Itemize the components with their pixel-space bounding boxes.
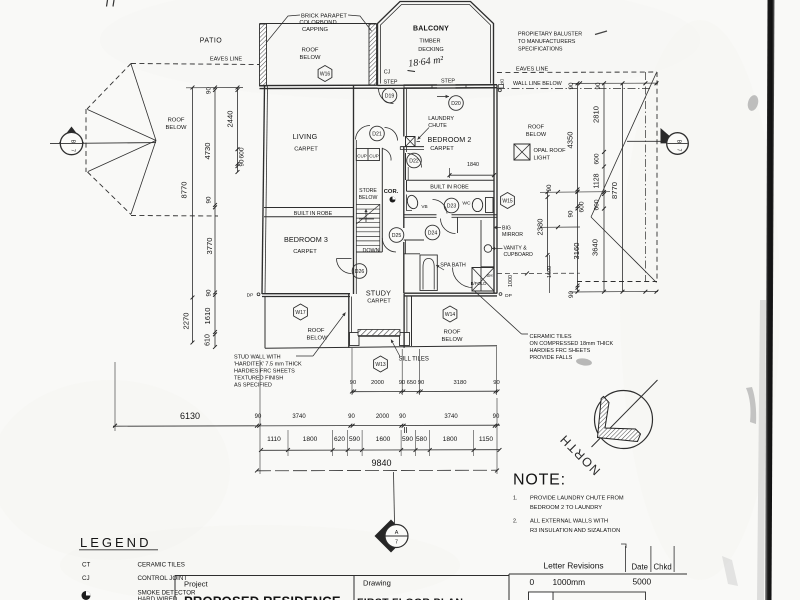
right dim chain R3 8770 — [622, 83, 624, 291]
bath dividing wall horizontal — [404, 214, 437, 216]
svg-text:9840: 9840 — [371, 458, 391, 468]
svg-text:90: 90 — [568, 82, 575, 89]
svg-text:D20: D20 — [451, 101, 461, 107]
parapet wall hatched column right — [369, 24, 377, 85]
svg-text:7: 7 — [676, 149, 682, 152]
svg-text:EAVES LINE: EAVES LINE — [516, 66, 548, 72]
svg-text:FIRST FLOOR PLAN: FIRST FLOOR PLAN — [357, 597, 463, 600]
row B left extension vertical — [114, 362, 116, 431]
svg-text:CARPET: CARPET — [294, 147, 318, 153]
svg-text:3740: 3740 — [444, 414, 458, 420]
svg-text:ROOF: ROOF — [444, 329, 461, 335]
svg-text:ROOF: ROOF — [302, 48, 319, 54]
scale bar — [529, 592, 646, 600]
svg-text:1610: 1610 — [203, 308, 212, 325]
svg-text:ALL EXTERNAL WALLS WITH: ALL EXTERNAL WALLS WITH — [530, 519, 608, 525]
svg-text:590: 590 — [349, 436, 360, 443]
svg-text:STUD WALL WITH: STUD WALL WITH — [234, 355, 281, 361]
bottom wall bedroom3 — [262, 293, 350, 295]
svg-text:ROOF: ROOF — [528, 124, 545, 130]
vanity basin VB — [406, 194, 420, 210]
svg-text:WC: WC — [462, 201, 471, 207]
section line B left — [50, 143, 156, 144]
door D20 circle — [449, 96, 464, 111]
window marker W17 — [294, 304, 308, 320]
svg-text:5000: 5000 — [633, 577, 652, 587]
door D25 arc — [382, 238, 396, 252]
svg-text:6130: 6130 — [180, 411, 200, 421]
svg-text:PROPOSED RESIDENCE: PROPOSED RESIDENCE — [184, 594, 341, 600]
svg-text:HARD WIRED: HARD WIRED — [138, 596, 178, 600]
eaves dashed line right — [497, 71, 657, 74]
svg-text:90: 90 — [568, 291, 575, 298]
stair diagonal — [356, 205, 380, 225]
svg-text:DP: DP — [505, 293, 512, 299]
svg-text:LIVING: LIVING — [293, 132, 318, 141]
right roof dashed outline — [656, 72, 658, 282]
shower bifold arc — [453, 268, 473, 288]
svg-text:1000: 1000 — [508, 275, 514, 287]
svg-text:CONTROL JOINT: CONTROL JOINT — [138, 575, 188, 582]
shower cubicle — [472, 268, 494, 292]
svg-text:W13: W13 — [375, 362, 386, 368]
bottom wall bathroom — [404, 292, 497, 294]
door D20 arrow — [437, 96, 449, 98]
svg-text:90: 90 — [350, 380, 356, 386]
bottom dim row D 9840 — [257, 469, 497, 472]
svg-text:1128: 1128 — [594, 173, 601, 188]
svg-text:90: 90 — [546, 184, 553, 191]
svg-text:7: 7 — [70, 149, 76, 152]
svg-text:BRICK PARAPET: BRICK PARAPET — [301, 14, 347, 20]
svg-text:CT: CT — [82, 562, 90, 569]
svg-text:TO MANUFACTURERS: TO MANUFACTURERS — [518, 39, 576, 45]
spa bath fixture — [420, 255, 437, 291]
svg-text:600: 600 — [579, 201, 586, 212]
right mid tick row — [540, 191, 610, 194]
svg-text:PATIO: PATIO — [200, 38, 223, 45]
scan page edge dark band right — [765, 0, 775, 600]
svg-text:3180: 3180 — [454, 380, 467, 386]
svg-text:90: 90 — [239, 159, 246, 166]
door D22 circle — [407, 153, 422, 168]
eaves line dashed top-left — [131, 64, 259, 65]
door D19 arc — [379, 89, 394, 104]
opal roof light symbol — [514, 144, 530, 160]
svg-text:CAPPING: CAPPING — [302, 27, 329, 33]
svg-text:1600: 1600 — [376, 436, 391, 443]
svg-text:Drawing: Drawing — [363, 579, 391, 588]
svg-text:1110: 1110 — [267, 436, 281, 443]
spa callout arrow — [436, 265, 444, 270]
laundry chute box — [406, 137, 416, 147]
svg-text:3770: 3770 — [205, 238, 214, 255]
svg-text:HARDIES FRC SHEETS: HARDIES FRC SHEETS — [530, 348, 591, 354]
svg-text:MIRROR: MIRROR — [502, 232, 523, 238]
svg-text:SILL TILES: SILL TILES — [399, 356, 429, 362]
svg-text:BELOW: BELOW — [359, 195, 378, 201]
svg-text:CHUTE: CHUTE — [428, 123, 447, 129]
right roof dash-dot inner vertical — [644, 72, 646, 282]
svg-text:BEDROOM 3: BEDROOM 3 — [284, 235, 328, 244]
door D26 circle — [352, 264, 367, 279]
svg-text:600: 600 — [239, 147, 246, 158]
svg-text:CUP: CUP — [369, 153, 379, 158]
svg-text:CJ: CJ — [384, 70, 391, 76]
svg-text:PROPIETARY BALUSTER: PROPIETARY BALUSTER — [518, 32, 582, 38]
svg-text:LEGEND: LEGEND — [80, 535, 151, 550]
svg-text:VANITY &: VANITY & — [504, 246, 528, 252]
right dim chain R2 2810-600-1128-600-3640 — [603, 83, 605, 291]
svg-text:1150: 1150 — [479, 436, 494, 443]
ceramic tiles callout — [474, 291, 522, 335]
svg-text:2000: 2000 — [371, 380, 384, 386]
dashed line 1000 right — [497, 272, 580, 274]
door D24 circle — [425, 225, 440, 240]
cupboards CUP CUP — [356, 149, 379, 161]
svg-text:2.: 2. — [513, 519, 518, 525]
title block drawing box — [354, 575, 509, 577]
svg-text:90: 90 — [568, 210, 575, 217]
left dims top connector — [186, 87, 243, 89]
svg-text:3740: 3740 — [292, 414, 306, 420]
svg-text:90: 90 — [255, 414, 262, 420]
row D extension verticals — [259, 360, 261, 474]
svg-text:BELOW: BELOW — [166, 125, 187, 131]
section marker B right — [661, 128, 679, 143]
left dim chain line L3 2440-600 — [237, 88, 239, 173]
handwritten area 18.6 m2 — [408, 54, 445, 69]
svg-text:TIMBER: TIMBER — [419, 39, 440, 45]
built-in robe bed2 box — [407, 179, 495, 181]
study bay walls — [348, 294, 350, 348]
svg-text:D21: D21 — [372, 131, 382, 137]
smoke detector symbol corridor — [390, 197, 396, 203]
svg-text:7: 7 — [395, 540, 398, 546]
window marker W13 — [374, 356, 388, 372]
svg-text:8770: 8770 — [610, 182, 619, 199]
svg-text:'HARDITEX' 7.5 mm THICK: 'HARDITEX' 7.5 mm THICK — [234, 362, 302, 368]
built-in robe bedroom3 — [264, 207, 354, 209]
svg-text:620: 620 — [334, 436, 345, 443]
svg-text:CARPET: CARPET — [430, 146, 454, 152]
window marker W15 — [501, 193, 515, 209]
svg-text:600: 600 — [594, 199, 601, 210]
svg-text:BUILT IN ROBE: BUILT IN ROBE — [430, 184, 469, 190]
svg-text:580: 580 — [416, 436, 427, 443]
svg-text:2440: 2440 — [226, 111, 235, 128]
main top wall living — [260, 84, 378, 86]
svg-text:PROVIDE FALLS: PROVIDE FALLS — [530, 355, 573, 361]
svg-text:BIG: BIG — [502, 226, 511, 232]
svg-text:WALL LINE BELOW: WALL LINE BELOW — [513, 81, 563, 87]
svg-text:EAVES LINE: EAVES LINE — [210, 57, 242, 63]
svg-text:90: 90 — [595, 82, 602, 89]
bed2 step wall below chute — [400, 146, 424, 148]
svg-text:W14: W14 — [445, 312, 456, 318]
svg-text:SPA BATH: SPA BATH — [440, 262, 466, 268]
stair shaft wall right — [381, 148, 383, 252]
svg-text:STEP: STEP — [441, 79, 455, 85]
svg-text:90: 90 — [206, 196, 213, 203]
svg-text:ON COMPRESSED 18mm THICK: ON COMPRESSED 18mm THICK — [530, 341, 614, 347]
stray pen mark — [595, 31, 607, 35]
svg-text:1800: 1800 — [443, 436, 458, 443]
svg-text:90: 90 — [493, 414, 500, 420]
smudge right upper — [746, 94, 760, 112]
svg-text:D25: D25 — [392, 233, 402, 239]
svg-text:1840: 1840 — [467, 162, 479, 168]
section marker A symbol — [375, 520, 408, 553]
svg-text:BELOW: BELOW — [442, 337, 463, 343]
svg-text:BEDROOM 2 TO LAUNDRY: BEDROOM 2 TO LAUNDRY — [530, 505, 602, 511]
door D23 circle — [444, 198, 459, 213]
bottom dim row A 90-2000-90-650-90-3180-90 — [352, 390, 498, 393]
wall line below dash-dot — [497, 88, 650, 90]
svg-text:CJ: CJ — [82, 575, 90, 582]
hip roof dashed outline left — [87, 64, 131, 110]
balcony inner wall line — [381, 5, 491, 84]
svg-text:4350: 4350 — [566, 132, 575, 149]
lower band bottom edge line — [265, 346, 497, 349]
hip ridge lines left roof — [131, 64, 156, 141]
right roof hip diagonals — [591, 73, 657, 218]
door D22 arc — [408, 154, 422, 168]
north arrow diagonal — [592, 380, 658, 447]
svg-text:D26: D26 — [355, 269, 365, 275]
svg-text:A: A — [395, 530, 399, 536]
exterior wall right bed2-bath — [493, 85, 495, 294]
window marker W16 — [318, 66, 332, 82]
right mid tick row 2 — [540, 226, 580, 228]
svg-text:D24: D24 — [428, 230, 438, 236]
window marker W14 — [443, 306, 457, 322]
svg-text:Chkd: Chkd — [654, 563, 672, 572]
stair treads — [356, 204, 380, 206]
title block project box — [175, 575, 354, 577]
left lower roof-below outline — [264, 297, 266, 349]
bath jog walls — [404, 239, 424, 241]
bottom dim row B 6130 + 90-3740-90-2000-90-3740-90 — [113, 425, 500, 426]
exterior wall left — [262, 86, 265, 294]
study window sill tiles — [350, 333, 360, 346]
smudge near provide falls — [576, 357, 593, 366]
svg-text:R3 INSULATION AND SIZALATION: R3 INSULATION AND SIZALATION — [530, 528, 620, 534]
svg-text:1800: 1800 — [303, 436, 318, 443]
svg-text:650: 650 — [407, 380, 417, 386]
svg-text:W16: W16 — [320, 71, 331, 77]
svg-text:CERAMIC TILES: CERAMIC TILES — [138, 562, 185, 569]
smudge right mid streak — [746, 387, 756, 424]
stair shaft wall left — [353, 86, 355, 294]
svg-text:TEXTURED FINISH: TEXTURED FINISH — [234, 376, 283, 382]
parapet top capping line — [260, 23, 377, 25]
door D19 circle — [382, 88, 397, 103]
svg-text:NOTE:: NOTE: — [513, 472, 566, 489]
corridor right wall / bath left wall — [403, 88, 405, 137]
door D24 arc — [441, 219, 456, 234]
svg-text:COLORBOND: COLORBOND — [299, 20, 336, 26]
svg-text:ROOF: ROOF — [308, 328, 325, 334]
svg-text:1600: 1600 — [547, 266, 553, 278]
left dim chain line L1 8770-2270 — [192, 88, 194, 343]
svg-text:OPAL ROOF: OPAL ROOF — [534, 148, 567, 154]
parapet wall hatched column left — [260, 24, 267, 86]
corridor-study dividing wall — [356, 251, 382, 253]
svg-text:D22: D22 — [409, 158, 419, 164]
svg-text:DOWN: DOWN — [362, 248, 379, 254]
svg-text:610: 610 — [205, 334, 212, 346]
svg-text:BUILT IN ROBE: BUILT IN ROBE — [294, 211, 333, 217]
svg-text:2000: 2000 — [376, 414, 390, 420]
balcony step wall bottom — [378, 84, 495, 87]
svg-text:2270: 2270 — [182, 313, 191, 330]
svg-text:Project: Project — [184, 580, 209, 589]
north arrow circle — [595, 391, 653, 449]
svg-text:SH: SH — [486, 273, 492, 278]
legend smoke detector — [82, 591, 91, 600]
svg-text:SPECIFICATIONS: SPECIFICATIONS — [518, 47, 563, 53]
door D26 arc — [337, 259, 352, 274]
top edge register ticks — [107, 0, 108, 7]
svg-text:AS SPECIFIED: AS SPECIFIED — [234, 383, 272, 389]
svg-text:8770: 8770 — [180, 182, 189, 199]
svg-text:CERAMIC TILES: CERAMIC TILES — [530, 334, 572, 340]
row A extension verticals — [351, 348, 353, 395]
svg-text:1.: 1. — [513, 496, 518, 502]
svg-text:Letter Revisions: Letter Revisions — [544, 561, 604, 571]
smudge bottom right faint — [722, 556, 738, 586]
svg-text:2810: 2810 — [592, 106, 601, 123]
svg-text:BELOW: BELOW — [300, 55, 321, 61]
svg-text:1000mm: 1000mm — [553, 577, 586, 587]
svg-text:Date: Date — [632, 563, 648, 572]
cupboard door arc — [382, 149, 391, 161]
svg-text:4730: 4730 — [203, 143, 212, 160]
right lower roof-below outline — [411, 296, 413, 346]
section marker A line — [394, 472, 395, 523]
svg-text:0: 0 — [530, 577, 535, 587]
bottom dim row C 1110-1800-620-590-1600-590-580-1800-1150 — [261, 449, 500, 452]
svg-text:90: 90 — [418, 380, 424, 386]
door D21 circle — [370, 126, 385, 141]
svg-text:DECKING: DECKING — [418, 47, 444, 53]
svg-text:90: 90 — [348, 414, 355, 420]
svg-text:BALCONY: BALCONY — [413, 26, 449, 33]
svg-text:90: 90 — [206, 289, 213, 296]
svg-text:90: 90 — [399, 414, 406, 420]
row C extension verticals — [287, 430, 289, 456]
bed2 left lower wall jog — [405, 153, 407, 180]
svg-text:STEP: STEP — [383, 80, 397, 86]
svg-text:VB: VB — [421, 204, 427, 209]
svg-text:CUP: CUP — [357, 153, 367, 158]
svg-text:W17: W17 — [295, 310, 306, 316]
svg-text:STORE: STORE — [359, 188, 377, 194]
svg-text:CARPET: CARPET — [293, 249, 317, 255]
section marker B left — [59, 127, 85, 144]
svg-text:B/FOLD: B/FOLD — [471, 281, 487, 286]
svg-text:ROOF: ROOF — [168, 118, 185, 124]
svg-text:3160: 3160 — [572, 243, 581, 260]
door D25 circle — [389, 228, 404, 243]
svg-text:3640: 3640 — [591, 239, 600, 256]
svg-text:COR.: COR. — [384, 189, 399, 195]
left dim chain line L2 4730-3770 — [214, 88, 216, 348]
svg-text:STUDY: STUDY — [366, 289, 391, 298]
door D21 arcs — [356, 125, 371, 139]
svg-text:HARDIES FRC SHEETS: HARDIES FRC SHEETS — [234, 369, 295, 375]
svg-text:LIGHT: LIGHT — [534, 155, 551, 161]
svg-text:W15: W15 — [502, 198, 513, 204]
svg-text:CUPBOARD: CUPBOARD — [504, 252, 534, 258]
right dim chain 2380 — [547, 192, 549, 271]
stair arrow down — [365, 209, 367, 222]
stud wall callout arrow — [313, 313, 346, 357]
laundry chute callout arrow — [418, 128, 430, 140]
svg-text:LAUNDRY: LAUNDRY — [428, 116, 454, 122]
right dim chain R1 4350-600-3160 — [577, 83, 579, 291]
title block scale box — [509, 573, 687, 575]
svg-text:BEDROOM 2: BEDROOM 2 — [427, 135, 471, 144]
section line B right — [627, 140, 667, 142]
door D23 arc — [433, 199, 448, 213]
svg-text:BELOW: BELOW — [526, 132, 547, 138]
balcony outer wall outline — [378, 2, 494, 86]
svg-text:590: 590 — [402, 436, 413, 443]
downpipe DP right — [499, 293, 502, 296]
svg-text:D19: D19 — [385, 93, 395, 99]
svg-text:600: 600 — [594, 153, 601, 164]
right dim top tick row — [572, 82, 658, 84]
main top wall bedroom2 — [404, 84, 438, 86]
north arrow L shape hatched — [598, 397, 641, 442]
right bottom tick row — [570, 290, 658, 293]
svg-text:CARPET: CARPET — [367, 299, 391, 305]
vanity nook wall — [480, 220, 482, 291]
svg-text:PROVIDE LAUNDRY CHUTE FROM: PROVIDE LAUNDRY CHUTE FROM — [530, 496, 624, 502]
svg-text:DP: DP — [247, 292, 254, 298]
svg-text:D23: D23 — [447, 203, 457, 209]
